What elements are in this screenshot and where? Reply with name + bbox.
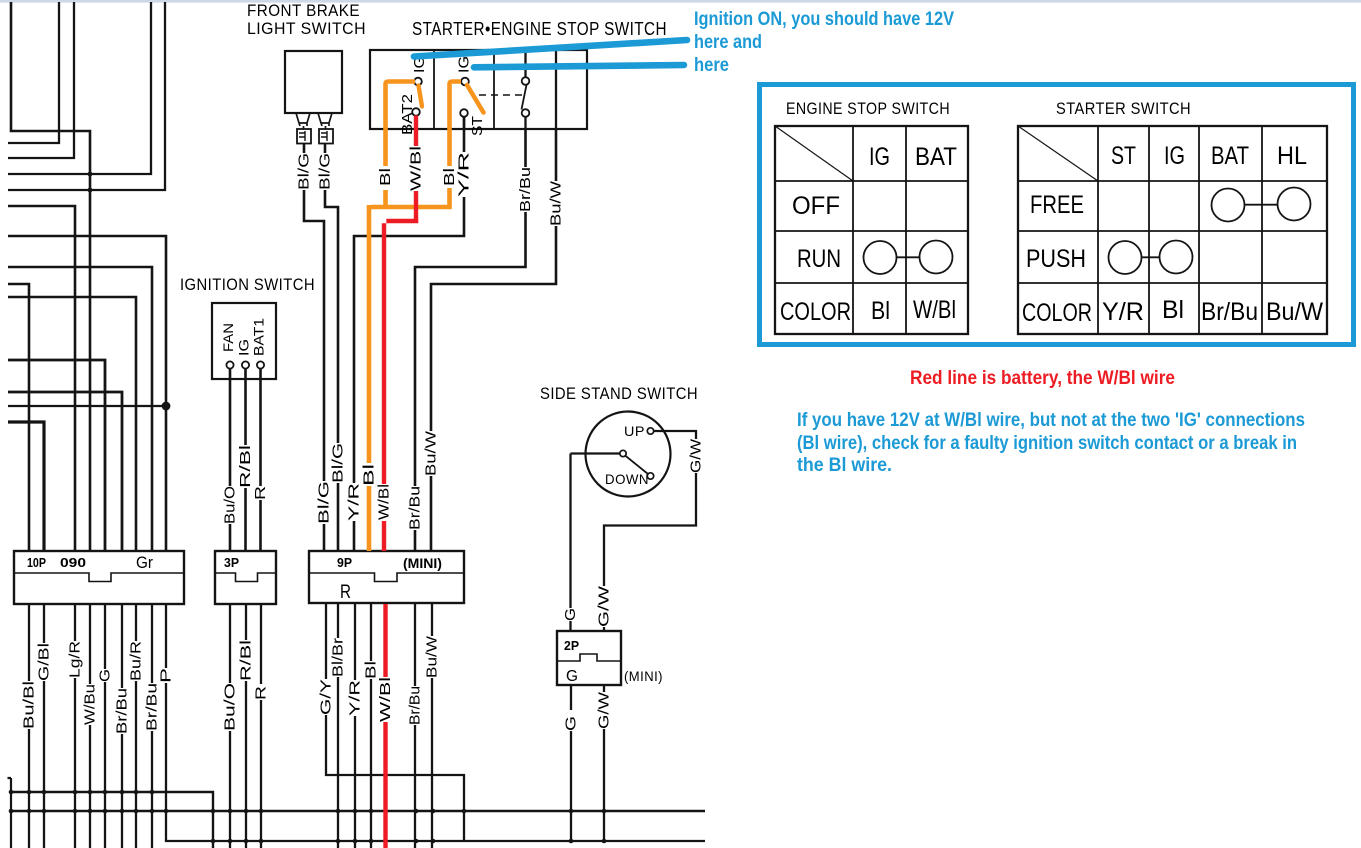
label Br/Bu below 10P bbox=[144, 683, 161, 731]
label Br/Bu below 10P bbox=[114, 688, 131, 734]
label R/Bl above 3P bbox=[237, 445, 254, 488]
orange highlight Bl wire left bbox=[386, 82, 416, 210]
wire from left edge y206 down to 10P bbox=[8, 206, 75, 551]
svg-text:Bl: Bl bbox=[361, 464, 378, 486]
svg-text:IG: IG bbox=[869, 143, 890, 171]
svg-text:W/Bu: W/Bu bbox=[82, 684, 99, 725]
wire R/Bl below 3P bbox=[245, 604, 247, 848]
label G below 2P bbox=[563, 710, 580, 731]
svg-text:10P: 10P bbox=[27, 555, 46, 570]
svg-text:W/Bl: W/Bl bbox=[913, 296, 956, 324]
wire R ignition to 3P bbox=[259, 369, 262, 552]
wire Bu/O below 3P bbox=[229, 604, 231, 848]
terminal IG2 bbox=[461, 78, 469, 86]
svg-text:ST: ST bbox=[469, 116, 486, 136]
wire G below 10P bbox=[104, 604, 106, 848]
starter engine stop switch box bbox=[370, 50, 587, 129]
svg-text:Bl: Bl bbox=[377, 168, 394, 186]
svg-text:W/Bl: W/Bl bbox=[376, 484, 393, 520]
svg-text:Br/Bu: Br/Bu bbox=[517, 167, 534, 212]
blue panel frame bbox=[760, 85, 1354, 345]
label Y/R below switch bbox=[456, 152, 473, 197]
blue pointer line to second IG bbox=[474, 65, 684, 67]
label G/W above 2P bbox=[596, 585, 613, 627]
wire Br/Bu below 9P bbox=[414, 604, 416, 848]
wire harness to left edge y158 bbox=[8, 2, 74, 158]
svg-text:Br/Bu: Br/Bu bbox=[407, 486, 424, 530]
svg-text:W/Bl: W/Bl bbox=[408, 146, 425, 191]
wire W/Bu below 10P bbox=[89, 604, 91, 848]
front brake switch terminal left bbox=[296, 113, 311, 144]
red highlight W/Bl from BAT2 bbox=[384, 116, 418, 552]
svg-text:here: here bbox=[694, 54, 729, 76]
svg-text:Ignition ON, you should have 1: Ignition ON, you should have 12V bbox=[694, 8, 954, 30]
svg-text:Gr: Gr bbox=[136, 553, 153, 572]
svg-text:Y/R: Y/R bbox=[456, 152, 473, 197]
svg-text:Bl: Bl bbox=[363, 661, 380, 679]
terminal IG1 bbox=[414, 78, 422, 86]
label FAN terminal bbox=[220, 323, 236, 352]
wire from left edge y406 to junction on v166 bbox=[8, 405, 166, 407]
svg-text:(Bl wire), check for a faulty: (Bl wire), check for a faulty ignition s… bbox=[797, 432, 1297, 454]
label BAT2 label bbox=[399, 94, 416, 135]
svg-text:W/Bl: W/Bl bbox=[377, 677, 394, 722]
svg-text:ENGINE STOP SWITCH: ENGINE STOP SWITCH bbox=[786, 99, 950, 118]
wire G/W from UP contact bbox=[604, 431, 696, 631]
label Bu/O below 3P bbox=[222, 683, 239, 731]
wire harness to left edge y143 bbox=[8, 2, 59, 143]
svg-text:Bl: Bl bbox=[1162, 296, 1184, 324]
label Bl/G above 9P right bbox=[330, 443, 347, 483]
label Br/Bu below 9P bbox=[407, 686, 424, 725]
svg-text:Y/R: Y/R bbox=[1102, 298, 1144, 326]
ignition switch box bbox=[212, 303, 276, 379]
side stand UP contact bbox=[647, 428, 653, 434]
bus wire long horizontal bbox=[10, 810, 705, 812]
svg-text:G/W: G/W bbox=[596, 691, 613, 729]
svg-text:COLOR: COLOR bbox=[1022, 299, 1092, 327]
wire R below 3P bbox=[260, 604, 262, 848]
wire harness v11 top to corner then down to 10P pin W/Bu bbox=[11, 2, 90, 551]
svg-text:R: R bbox=[252, 486, 269, 500]
label G/Bl below 10P bbox=[36, 643, 53, 681]
wire from left edge y284 down to 10P bbox=[8, 284, 29, 551]
svg-text:R: R bbox=[340, 582, 351, 603]
label W/Bl red below 9P bbox=[377, 677, 394, 722]
label G/W below 2P bbox=[596, 691, 613, 729]
wire Bu/W below 9P bbox=[431, 604, 433, 848]
label IG label right bbox=[456, 56, 473, 73]
svg-text:BAT1: BAT1 bbox=[251, 318, 267, 356]
svg-text:Bu/W: Bu/W bbox=[1266, 298, 1323, 326]
stop switch blade bbox=[522, 85, 527, 110]
svg-text:3P: 3P bbox=[224, 555, 239, 570]
svg-text:Br/Bu: Br/Bu bbox=[114, 688, 131, 734]
svg-text:ST: ST bbox=[1111, 142, 1136, 170]
svg-text:Bu/W: Bu/W bbox=[423, 430, 440, 476]
connector 3P bbox=[215, 551, 276, 604]
ST terminal stub bbox=[463, 117, 465, 129]
wire Lg/R below 10P bbox=[74, 604, 76, 848]
wire harness to left edge y190 bbox=[8, 2, 165, 190]
label G above 2P bbox=[562, 608, 579, 621]
svg-text:the Bl wire.: the Bl wire. bbox=[797, 454, 892, 476]
svg-text:BAT: BAT bbox=[1211, 142, 1249, 170]
label Bl/G left under front brake bbox=[296, 153, 313, 190]
svg-text:FRONT BRAKE: FRONT BRAKE bbox=[247, 1, 360, 20]
wire Bu/W inside switch box bbox=[555, 50, 557, 129]
svg-text:Bl/G: Bl/G bbox=[316, 481, 333, 524]
svg-text:G/W: G/W bbox=[596, 585, 613, 627]
svg-text:R/Bl: R/Bl bbox=[238, 640, 255, 681]
label Bl label right below switch bbox=[441, 168, 458, 186]
svg-text:Bu/R: Bu/R bbox=[128, 641, 145, 681]
svg-text:Bl/Br: Bl/Br bbox=[330, 638, 347, 677]
svg-text:R/Bl: R/Bl bbox=[237, 445, 254, 488]
svg-text:IG: IG bbox=[456, 56, 473, 73]
svg-text:FREE: FREE bbox=[1030, 191, 1084, 219]
connector 9P MINI bbox=[309, 551, 464, 603]
label G/W right of side stand bbox=[688, 438, 705, 473]
svg-text:G: G bbox=[562, 608, 579, 621]
wire Bl/G left from front brake to 9P bbox=[304, 144, 324, 552]
svg-text:UP: UP bbox=[624, 423, 645, 439]
svg-text:COLOR: COLOR bbox=[780, 298, 851, 326]
svg-text:IG: IG bbox=[236, 339, 252, 356]
svg-text:2P: 2P bbox=[564, 638, 579, 653]
svg-text:RUN: RUN bbox=[797, 245, 841, 273]
svg-text:Bu/Bl: Bu/Bl bbox=[21, 681, 38, 729]
wire from left edge y392 down to 10P bbox=[8, 392, 122, 551]
label Y/R above 9P bbox=[346, 483, 363, 521]
svg-text:If you have 12V at W/Bl wire,: If you have 12V at W/Bl wire, but not at… bbox=[797, 409, 1305, 431]
orange highlight Bl wire right bbox=[450, 82, 462, 210]
svg-text:Bu/W: Bu/W bbox=[548, 180, 565, 226]
wire G/Bl below 10P bbox=[43, 604, 45, 848]
label ST label bbox=[469, 116, 486, 136]
stop switch stub above bbox=[524, 50, 526, 77]
label Bu/W above 9P bbox=[423, 430, 440, 476]
side stand switch circle bbox=[586, 412, 671, 497]
thick wire from left edge y422 down to 10P bbox=[8, 422, 44, 551]
label Bl label left below switch bbox=[377, 168, 394, 186]
terminal BAT2 bbox=[412, 108, 420, 116]
svg-text:G: G bbox=[97, 669, 114, 682]
svg-text:Lg/R: Lg/R bbox=[67, 641, 84, 678]
svg-text:G/Bl: G/Bl bbox=[36, 643, 53, 681]
terminal ST bbox=[460, 109, 468, 117]
stub wire far left bottom bbox=[8, 778, 12, 848]
wire Bl/Br below 9P bbox=[337, 604, 339, 848]
svg-text:R: R bbox=[253, 686, 270, 700]
label Bu/R below 10P bbox=[128, 641, 145, 681]
label R above 3P bbox=[252, 486, 269, 500]
wire Bu/R below 10P bbox=[135, 604, 137, 848]
label Bl orange above 9P bbox=[361, 464, 378, 486]
label W/Bu below 10P bbox=[82, 684, 99, 725]
svg-text:PUSH: PUSH bbox=[1026, 245, 1086, 273]
front brake switch terminal right bbox=[318, 113, 333, 144]
wire Bl below 9P bbox=[370, 604, 372, 848]
label Bu/W below 9P bbox=[424, 635, 441, 678]
svg-text:(MINI): (MINI) bbox=[403, 555, 442, 571]
label IG label left bbox=[411, 56, 428, 73]
svg-text:Red line is battery, the W/Bl: Red line is battery, the W/Bl wire bbox=[910, 367, 1175, 389]
wire from left edge y360 down to 10P bbox=[8, 360, 105, 551]
side stand DOWN contact bbox=[647, 473, 653, 479]
svg-text:IGNITION SWITCH: IGNITION SWITCH bbox=[180, 275, 315, 294]
wire Br/Bu from stop switch to 9P bbox=[415, 129, 526, 551]
svg-text:Br/Bu: Br/Bu bbox=[144, 683, 161, 731]
label Bl/G above 9P left bbox=[316, 481, 333, 524]
svg-text:Y/R: Y/R bbox=[346, 483, 363, 521]
label Y/R below 9P bbox=[347, 680, 364, 716]
svg-text:Bl: Bl bbox=[871, 297, 890, 325]
svg-text:G: G bbox=[563, 716, 580, 731]
svg-text:here and: here and bbox=[694, 31, 762, 53]
label W/Bl red above 9P bbox=[376, 484, 393, 520]
stop switch contact bottom bbox=[522, 109, 530, 117]
label G below 10P bbox=[97, 669, 114, 682]
svg-text:Bl/G: Bl/G bbox=[330, 443, 347, 483]
svg-text:LIGHT SWITCH: LIGHT SWITCH bbox=[247, 19, 366, 38]
svg-text:Bu/O: Bu/O bbox=[222, 683, 239, 731]
wire Bu/O ignition to 3P bbox=[229, 369, 232, 552]
junction dots on bottom bus bbox=[9, 790, 607, 844]
svg-text:(MINI): (MINI) bbox=[624, 668, 663, 684]
blue pointer line to first IG bbox=[414, 40, 687, 57]
wire from left edge y236 down to 10P bbox=[8, 236, 166, 551]
orange switch blade IG2-ST bbox=[467, 85, 484, 113]
svg-text:Bl: Bl bbox=[441, 168, 458, 186]
svg-text:Bu/W: Bu/W bbox=[424, 635, 441, 678]
label Bl/G right under front brake bbox=[317, 153, 334, 190]
wire Br/Bu below 10P bbox=[121, 604, 123, 848]
label Bl below 9P bbox=[363, 661, 380, 679]
svg-text:Bl/G: Bl/G bbox=[317, 153, 334, 190]
orange switch blade IG1-BAT2 bbox=[419, 86, 423, 107]
svg-text:Bl/G: Bl/G bbox=[296, 153, 313, 190]
wire Y/R below 9P bbox=[354, 604, 356, 848]
svg-text:FAN: FAN bbox=[220, 323, 236, 352]
connector 10P 090 Gr bbox=[14, 551, 184, 604]
wire G/Y below 9P to bus bbox=[326, 604, 464, 841]
svg-text:SIDE STAND SWITCH: SIDE STAND SWITCH bbox=[540, 384, 698, 403]
svg-text:Y/R: Y/R bbox=[347, 680, 364, 716]
label Bu/Bl below 10P bbox=[21, 681, 38, 729]
junction dot node on v166 bbox=[162, 402, 171, 411]
svg-text:P: P bbox=[158, 668, 175, 683]
wire harness to left edge y174 bbox=[8, 2, 151, 174]
stop switch contact top bbox=[522, 77, 530, 85]
svg-text:DOWN: DOWN bbox=[605, 471, 649, 487]
wire G from pivot to 2P bbox=[571, 454, 621, 632]
wire from left edge y267 down to 10P bbox=[8, 267, 152, 551]
starter switch table bbox=[1018, 126, 1327, 334]
label P below 10P bbox=[158, 668, 175, 683]
stop switch stub below bbox=[524, 117, 526, 129]
side stand blade bbox=[626, 456, 649, 474]
label W/Bl below switch bbox=[408, 146, 425, 191]
label Bu/O above 3P bbox=[222, 486, 239, 524]
label BAT1 terminal bbox=[251, 318, 267, 356]
svg-text:Br/Bu: Br/Bu bbox=[407, 686, 424, 725]
annotation blue paragraph bbox=[797, 409, 1305, 476]
label R/Bl below 3P bbox=[238, 640, 255, 681]
svg-text:Bu/O: Bu/O bbox=[222, 486, 239, 524]
wire Bu/W from switch to 9P bbox=[431, 129, 556, 551]
svg-text:090: 090 bbox=[60, 555, 86, 570]
side stand pivot contact bbox=[620, 450, 626, 456]
front brake light switch body bbox=[285, 51, 342, 113]
wire Bl/G right from front brake to 9P bbox=[325, 144, 338, 552]
orange highlight Bl merge horizontal bbox=[369, 205, 451, 551]
wire G below 2P bbox=[570, 685, 572, 841]
svg-text:BAT: BAT bbox=[915, 143, 957, 171]
svg-text:IG: IG bbox=[1164, 142, 1185, 170]
wire R/Bl ignition to 3P bbox=[244, 369, 247, 552]
wire Y/R from ST to 9P bbox=[354, 117, 464, 551]
label Br/Bu above 9P bbox=[407, 486, 424, 530]
svg-text:G: G bbox=[566, 668, 578, 685]
wire from left edge y297 down to 10P bbox=[8, 297, 136, 551]
top screenshot strip bbox=[0, 0, 1361, 3]
svg-text:HL: HL bbox=[1277, 142, 1307, 170]
svg-text:STARTER SWITCH: STARTER SWITCH bbox=[1056, 99, 1191, 118]
wire P below 10P into bottom bus bbox=[166, 604, 705, 841]
svg-text:G/W: G/W bbox=[688, 438, 705, 473]
label Lg/R below 10P bbox=[67, 641, 84, 678]
label R below 3P bbox=[253, 684, 270, 700]
wire Br/Bu below 10P bbox=[151, 604, 153, 848]
label Bl/Br below 9P bbox=[330, 638, 347, 677]
label Bu/W below switch bbox=[548, 180, 565, 226]
svg-text:OFF: OFF bbox=[792, 192, 840, 220]
svg-text:9P: 9P bbox=[337, 555, 352, 570]
connector 2P MINI bbox=[557, 631, 621, 685]
svg-text:BAT2: BAT2 bbox=[399, 94, 416, 135]
svg-text:STARTER•ENGINE STOP SWITCH: STARTER•ENGINE STOP SWITCH bbox=[412, 19, 667, 39]
red highlight W/Bl below 9P bbox=[383, 604, 387, 848]
mechanical coupling dashed link bbox=[479, 94, 522, 96]
label G/Y below 9P bbox=[318, 679, 335, 715]
wire Bu/Bl below 10P bbox=[28, 604, 30, 848]
label Br/Bu below switch bbox=[517, 167, 534, 212]
svg-text:Br/Bu: Br/Bu bbox=[1201, 298, 1258, 326]
engine stop switch table bbox=[775, 126, 968, 334]
svg-text:G/Y: G/Y bbox=[318, 679, 335, 715]
wire G/W below 2P bbox=[603, 685, 605, 841]
bus wire lower-left corner down bbox=[10, 792, 213, 848]
label IG terminal ignition bbox=[236, 339, 252, 356]
